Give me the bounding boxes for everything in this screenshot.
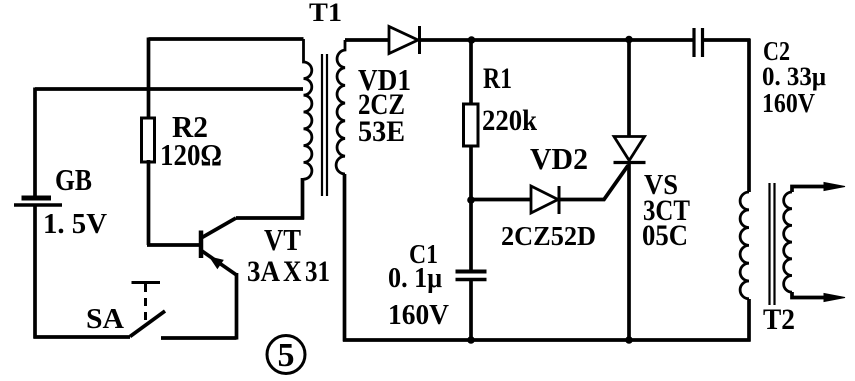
transformer T1 core: [322, 54, 327, 196]
wire: battery bottom vertical: [33, 206, 37, 339]
svg-text:VT: VT: [264, 222, 301, 257]
svg-text:T1: T1: [309, 0, 342, 27]
wire: junction to VD2: [471, 198, 531, 202]
transformer T1 secondary winding: [336, 40, 345, 174]
wire: T2 secondary top output with arrow: [792, 183, 845, 193]
svg-text:160V: 160V: [388, 299, 449, 331]
svg-text:05C: 05C: [642, 219, 688, 252]
svg-text:0. 33μ: 0. 33μ: [762, 62, 826, 91]
resistor R2: [142, 118, 155, 162]
wire: base lead from R2: [147, 160, 200, 245]
svg-text:R1: R1: [483, 62, 512, 95]
wire: T2 primary bottom lead: [747, 299, 751, 342]
svg-text:T2: T2: [763, 303, 795, 336]
wire: R1 bottom lead: [469, 146, 473, 200]
svg-text:1. 5V: 1. 5V: [43, 208, 107, 240]
transistor VT: [201, 218, 237, 275]
wire: top rail T1 to right corner: [345, 38, 750, 42]
diode VD1: [389, 26, 420, 54]
node: junction R1/C1/VD2: [467, 196, 475, 204]
wire: thyristor cathode vertical: [627, 162, 631, 342]
capacitor C2: [694, 28, 703, 57]
svg-text:160V: 160V: [762, 88, 815, 118]
wire: battery plus to T1 tap: [35, 87, 303, 91]
wire: R1 top lead: [469, 40, 473, 104]
wire: collector horizontal to T1: [236, 216, 304, 220]
figure number 5: [267, 336, 305, 375]
svg-text:5: 5: [278, 337, 295, 374]
svg-text:2CZ52D: 2CZ52D: [501, 221, 596, 251]
wire: T1 primary bottom lead: [301, 178, 305, 220]
wire: battery top vertical: [33, 88, 37, 197]
svg-text:3AX31: 3AX31: [247, 255, 330, 288]
resistor R1: [464, 104, 479, 146]
node: bottom junction thyristor: [625, 336, 633, 344]
wire: switch to emitter corner: [161, 273, 237, 340]
transformer T1 primary winding: [304, 39, 312, 179]
wire: R2 top lead vertical: [147, 38, 151, 119]
transformer T2 primary winding: [740, 192, 749, 299]
transformer T2 core: [770, 183, 775, 305]
switch SA: [130, 283, 165, 337]
wire: bottom rail: [343, 338, 751, 342]
wire: bottom-left horizontal to switch: [34, 335, 131, 339]
capacitor C1: [456, 272, 487, 280]
svg-text:GB: GB: [55, 162, 92, 197]
node: bottom junction C1: [467, 336, 475, 344]
wire: VD2 to thyristor gate: [559, 166, 628, 200]
transformer T2 secondary winding: [784, 192, 792, 292]
node: top junction R1: [468, 36, 476, 44]
svg-text:120Ω: 120Ω: [160, 137, 222, 172]
svg-text:VD2: VD2: [530, 141, 588, 176]
wire: C1 top lead: [469, 200, 473, 270]
thyristor VS: [614, 137, 646, 163]
battery GB: [14, 198, 62, 205]
svg-text:SA: SA: [86, 304, 125, 335]
node: top junction thyristor: [625, 36, 633, 44]
svg-text:220k: 220k: [482, 104, 537, 137]
wire: top-left horizontal from R2 top to T1 primary top: [149, 37, 304, 41]
wire: right vertical C2 corner to T2: [747, 39, 751, 193]
wire: T2 secondary bottom output with arrow: [792, 292, 845, 302]
wire: thyristor anode vertical: [627, 40, 631, 138]
svg-text:53E: 53E: [358, 115, 405, 148]
wire: T1 secondary bottom lead: [343, 174, 347, 342]
wire: C1 bottom lead: [469, 281, 473, 341]
svg-text:0. 1μ: 0. 1μ: [388, 263, 442, 294]
diode VD2: [531, 186, 559, 214]
